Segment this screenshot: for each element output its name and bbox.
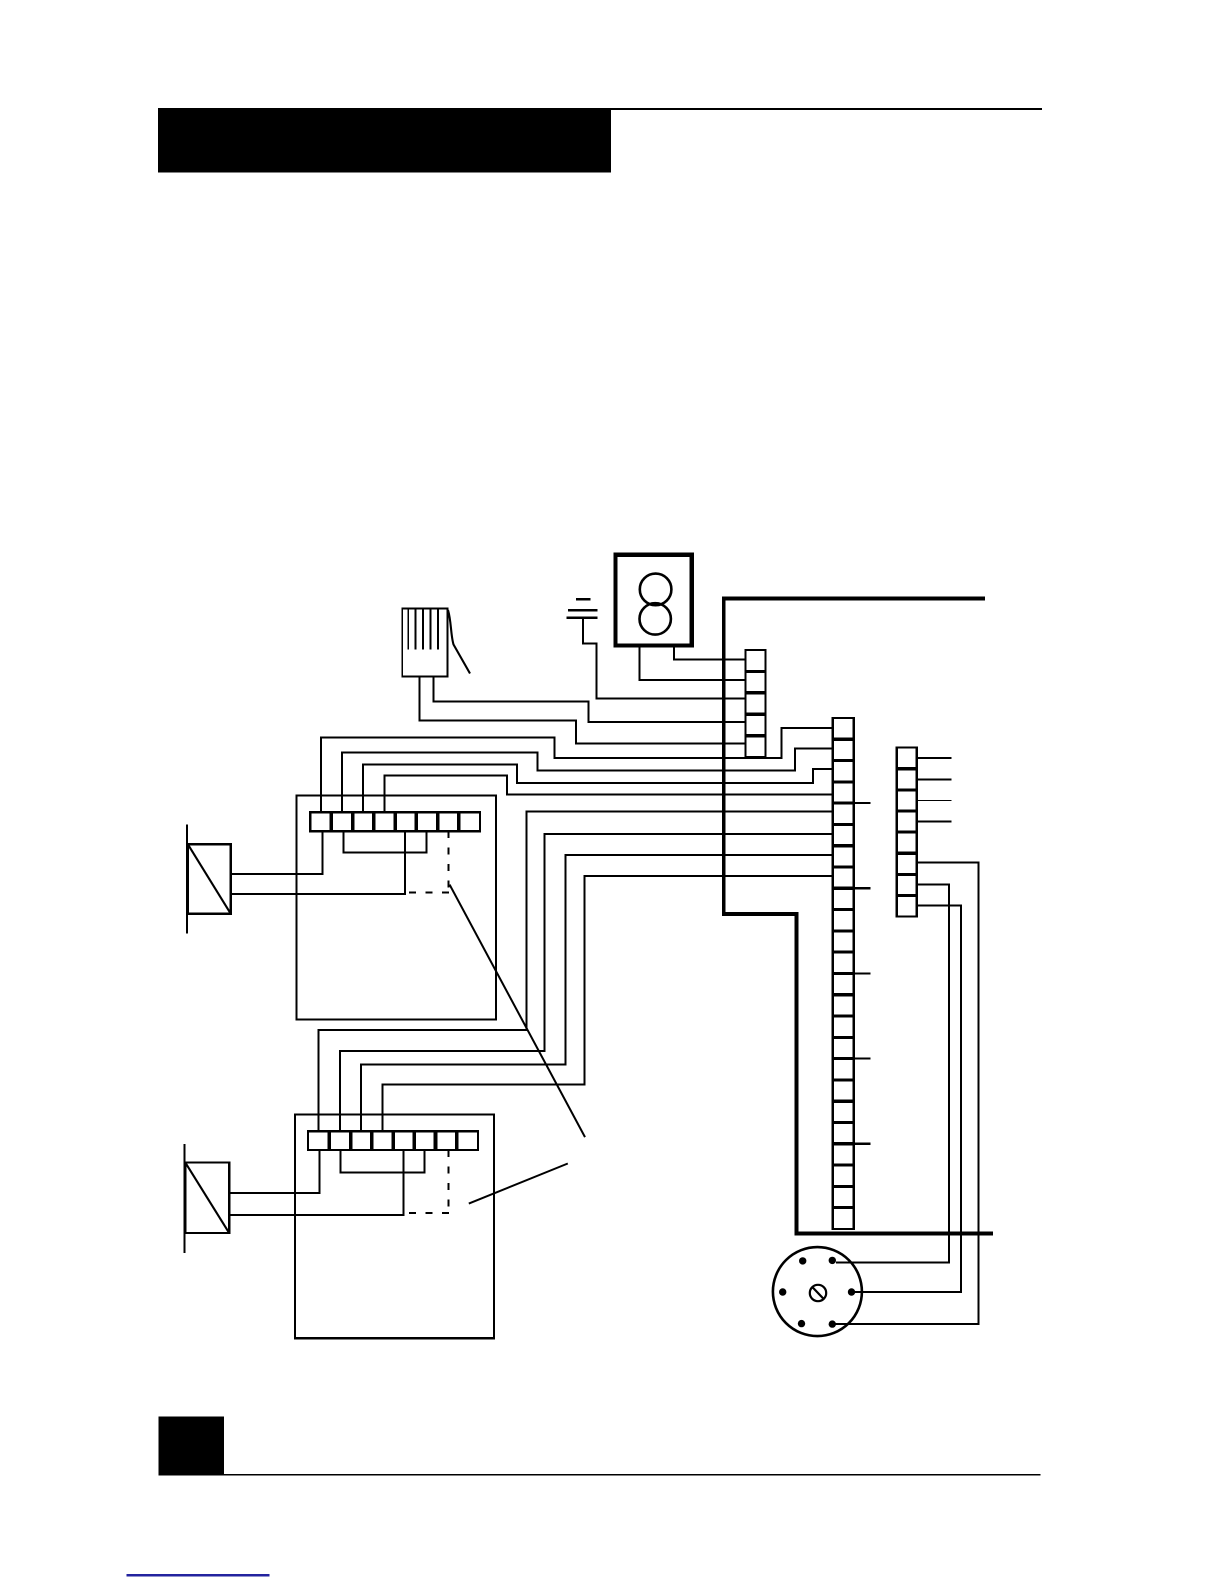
wire: SP2 - to CN2 sq5 [229, 1150, 403, 1215]
wire: ground to terminal strip A sq3 [583, 619, 746, 699]
terminal strip B (24 terminals) [833, 718, 854, 1229]
phone jack J1 (RJ11 plug) [402, 609, 470, 677]
wire: strip C sq6 to connector bottom-right pin [834, 863, 979, 1325]
strip C stub wires sq1-sq4 [917, 758, 952, 821]
terminal strip C (8 terminals) [897, 748, 917, 917]
circular DIN connector [773, 1247, 862, 1336]
wire: CN1 sq1 to strip B sq1 [321, 728, 833, 812]
wire: SP1 + to CN1 sq1 [231, 831, 323, 874]
connector strip CN2 (8 positions) [308, 1131, 478, 1150]
callout line 2 [469, 1164, 568, 1204]
terminal strip A (5 terminals) [746, 650, 766, 757]
wire: CN2 sq1 to strip B sq5 [319, 811, 833, 1131]
wire: CN2 sq2 to strip B sq6 [340, 834, 833, 1131]
speaker SP2 [185, 1144, 230, 1253]
wire: CN1 sq2 to strip B sq2 [342, 748, 833, 812]
wire: outlet left pin to terminal strip A sq2 [640, 646, 746, 680]
wire: strip C sq7 to connector top-right pin [836, 885, 949, 1263]
connector strip CN1 (8 positions) [310, 812, 480, 831]
thick power bus line [724, 599, 993, 1234]
wire: SP1 - to CN1 sq5 [231, 831, 405, 894]
wire: CN2 sq4 to strip B sq8 [382, 876, 833, 1131]
wire: outlet right pin to terminal strip A sq1 [674, 646, 745, 660]
ground symbol [567, 599, 598, 618]
jumper CN1 sq2 to sq6 [344, 831, 427, 853]
footer page-number block (redacted black) [159, 1417, 224, 1476]
wire: CN1 sq4 to strip B sq4 [384, 775, 832, 812]
wire: strip C sq8 to connector right pin [853, 906, 961, 1293]
wire: CN2 sq3 to strip B sq7 [361, 855, 833, 1131]
title bar (redacted black) [158, 108, 611, 173]
callout line 1 [450, 885, 585, 1138]
jumper CN2 sq2 to sq6 [340, 1150, 424, 1173]
strip B group tick marks [854, 803, 871, 1144]
wire: SP2 + to CN2 sq1 [229, 1150, 319, 1193]
wire: jack pin right to terminal strip A sq4 [434, 677, 746, 722]
footer link underline [127, 1574, 270, 1576]
footer rule [224, 1474, 1041, 1476]
speaker SP1 [187, 825, 231, 934]
wire: CN1 sq3 to strip B sq3 [363, 765, 833, 813]
header rule [611, 108, 1042, 110]
wire: jack pin left to terminal strip A sq5 [420, 677, 746, 744]
equipment box 1 [297, 796, 497, 1020]
dashed option wire CN2 sq7 [405, 1150, 449, 1214]
power outlet P1 [615, 555, 691, 646]
dashed option wire CN1 sq7 [405, 831, 449, 893]
equipment box 2 [295, 1115, 494, 1339]
